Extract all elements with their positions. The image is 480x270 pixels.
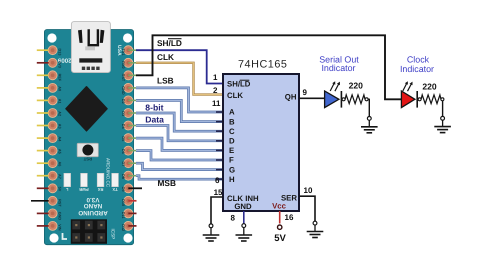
silkscreen L mark xyxy=(63,233,68,239)
board silkscreen texts xyxy=(57,45,122,239)
LED indicators on board: L PWR RX TX xyxy=(64,173,118,186)
ground G4 xyxy=(361,120,378,132)
svg-text:MSB: MSB xyxy=(158,178,176,188)
ground G5 xyxy=(434,120,451,132)
terminal node pin10 xyxy=(313,221,317,225)
terminal node pin8 xyxy=(242,224,246,228)
terminal node R1 xyxy=(367,117,371,121)
left pin stubs xyxy=(31,50,49,226)
svg-text:D2: D2 xyxy=(121,99,125,104)
svg-text:D10: D10 xyxy=(121,199,125,206)
svg-text:5V: 5V xyxy=(58,187,62,192)
data wire G xyxy=(136,163,223,169)
svg-text:NANO: NANO xyxy=(84,202,103,209)
svg-text:1: 1 xyxy=(213,73,218,82)
svg-text:REF: REF xyxy=(58,74,62,82)
wire CLK (tan) to IC pin 2 xyxy=(136,63,223,95)
red stub xyxy=(128,200,136,202)
svg-text:11: 11 xyxy=(212,99,221,108)
svg-text:3V3: 3V3 xyxy=(58,61,62,68)
svg-text:Data: Data xyxy=(145,114,164,124)
ground G2 xyxy=(236,228,253,241)
svg-text:V3.0: V3.0 xyxy=(86,196,99,203)
pin 8 GND wire xyxy=(243,211,245,224)
svg-text:10: 10 xyxy=(304,186,313,195)
svg-text:ARDUINO: ARDUINO xyxy=(78,209,107,216)
data wire B xyxy=(136,100,223,121)
svg-text:RST: RST xyxy=(58,199,62,207)
svg-text:D3: D3 xyxy=(121,111,125,116)
svg-text:D5: D5 xyxy=(121,136,125,141)
svg-text:Indicator: Indicator xyxy=(321,63,355,73)
wire SH/LD (navy) from D13 pad to IC pin 1 xyxy=(136,50,223,83)
wire resistor R2 to ground xyxy=(442,101,444,117)
svg-text:A: A xyxy=(229,108,235,117)
svg-text:A5: A5 xyxy=(58,149,62,154)
svg-text:RST: RST xyxy=(83,157,92,162)
USB connector J1 xyxy=(71,22,110,73)
IC 74HC165 U1 xyxy=(223,58,299,211)
ground G1 xyxy=(203,228,220,241)
tiny pin name labels right column xyxy=(121,49,125,232)
data wire C xyxy=(136,113,223,131)
data wire F xyxy=(136,151,223,160)
ICSP header xyxy=(71,219,107,244)
mounting hole top-left xyxy=(47,33,56,42)
svg-text:RX: RX xyxy=(97,187,103,192)
svg-text:D9: D9 xyxy=(121,187,125,192)
svg-text:QH: QH xyxy=(285,92,297,101)
svg-text:G: G xyxy=(229,165,235,174)
left pin pads xyxy=(48,46,57,231)
svg-text:C: C xyxy=(229,127,235,136)
svg-text:15: 15 xyxy=(214,188,223,197)
svg-text:Vcc: Vcc xyxy=(272,201,287,210)
svg-text:A6: A6 xyxy=(58,162,62,167)
pin 10 SER wire to ground xyxy=(299,196,315,221)
svg-text:D: D xyxy=(229,137,235,146)
pin 16 Vcc wire 5V xyxy=(279,211,281,224)
ground G3 xyxy=(307,225,324,237)
wire resistor R1 to ground xyxy=(368,99,369,116)
svg-text:TX1: TX1 xyxy=(121,49,125,56)
dark red stub xyxy=(128,212,136,214)
mounting hole bottom-right xyxy=(123,233,132,242)
svg-text:GND: GND xyxy=(58,212,62,221)
label Serial Out Indicator xyxy=(319,55,359,73)
svg-text:8-bit: 8-bit xyxy=(145,103,163,113)
svg-text:RST: RST xyxy=(121,74,125,82)
svg-text:RX0: RX0 xyxy=(121,61,125,68)
svg-text:Clock: Clock xyxy=(407,54,430,64)
svg-text:6: 6 xyxy=(215,176,220,185)
data wire A xyxy=(136,88,223,112)
svg-text:A1: A1 xyxy=(58,99,62,104)
svg-text:D7: D7 xyxy=(121,162,125,167)
Arduino Nano board U2 xyxy=(44,30,133,245)
wire QH to serial LED xyxy=(299,97,325,99)
label 8-bit Data xyxy=(145,103,164,125)
data wire E xyxy=(136,138,223,150)
svg-text:220: 220 xyxy=(422,81,437,91)
svg-text:A2: A2 xyxy=(58,111,62,116)
svg-text:A0: A0 xyxy=(58,86,62,91)
right pin pads xyxy=(124,46,133,231)
svg-text:VIN: VIN xyxy=(58,224,62,231)
data wire H xyxy=(136,176,223,180)
svg-text:5V: 5V xyxy=(274,233,286,244)
svg-text:8: 8 xyxy=(231,214,236,223)
dark red stub xyxy=(128,225,136,227)
svg-text:9: 9 xyxy=(303,88,308,97)
svg-text:USA: USA xyxy=(116,45,122,56)
svg-text:SH/LD: SH/LD xyxy=(157,38,182,48)
mounting hole top-right xyxy=(123,33,132,42)
LED D1 serial out (blue) xyxy=(325,81,342,107)
svg-text:CLK: CLK xyxy=(227,91,243,100)
svg-text:2: 2 xyxy=(213,86,218,95)
svg-text:GND: GND xyxy=(234,202,252,211)
label Clock Indicator xyxy=(400,54,434,74)
svg-text:74HC165: 74HC165 xyxy=(238,58,287,70)
svg-text:A7: A7 xyxy=(58,174,62,179)
svg-text:ARDUINO.CC: ARDUINO.CC xyxy=(106,158,111,188)
RST button xyxy=(77,143,98,161)
svg-text:D6: D6 xyxy=(121,149,125,154)
svg-text:LSB: LSB xyxy=(157,76,174,86)
pin number labels xyxy=(212,73,313,223)
svg-text:D13: D13 xyxy=(58,49,62,56)
data wire D xyxy=(136,126,223,141)
right green pin stubs xyxy=(128,50,137,176)
svg-text:B: B xyxy=(229,117,235,126)
terminal node pin15 xyxy=(209,224,213,228)
terminal node 5V xyxy=(278,225,282,229)
svg-text:TX: TX xyxy=(112,187,117,192)
LED D2 clock (red) xyxy=(401,81,417,107)
wire clock line (black) to red LED over the top xyxy=(136,35,401,99)
MSB black stub wire xyxy=(128,187,142,189)
MCU chip (rotated square) xyxy=(66,87,107,131)
svg-text:A3: A3 xyxy=(58,124,62,129)
tiny pin name labels left column xyxy=(58,49,62,231)
label SH/LD xyxy=(157,38,182,48)
svg-text:Indicator: Indicator xyxy=(400,64,434,74)
resistor R2 220 xyxy=(418,81,444,103)
svg-text:16: 16 xyxy=(285,213,294,222)
svg-text:D12: D12 xyxy=(121,224,125,231)
svg-text:D8: D8 xyxy=(121,174,125,179)
svg-text:H: H xyxy=(229,175,235,184)
svg-text:CLK: CLK xyxy=(157,52,174,62)
svg-text:E: E xyxy=(229,146,234,155)
svg-text:ICSP: ICSP xyxy=(111,229,116,240)
mounting hole bottom-left xyxy=(49,233,58,242)
svg-text:F: F xyxy=(229,156,234,165)
IC pin stubs A-H xyxy=(216,112,223,179)
svg-text:PWR: PWR xyxy=(79,187,88,192)
svg-text:220: 220 xyxy=(349,80,364,90)
pin 15 wire to ground xyxy=(211,197,223,224)
svg-text:D11: D11 xyxy=(121,212,125,219)
resistor R1 220 xyxy=(342,80,368,103)
terminal node R2 xyxy=(441,116,445,120)
svg-text:GND: GND xyxy=(121,86,125,95)
